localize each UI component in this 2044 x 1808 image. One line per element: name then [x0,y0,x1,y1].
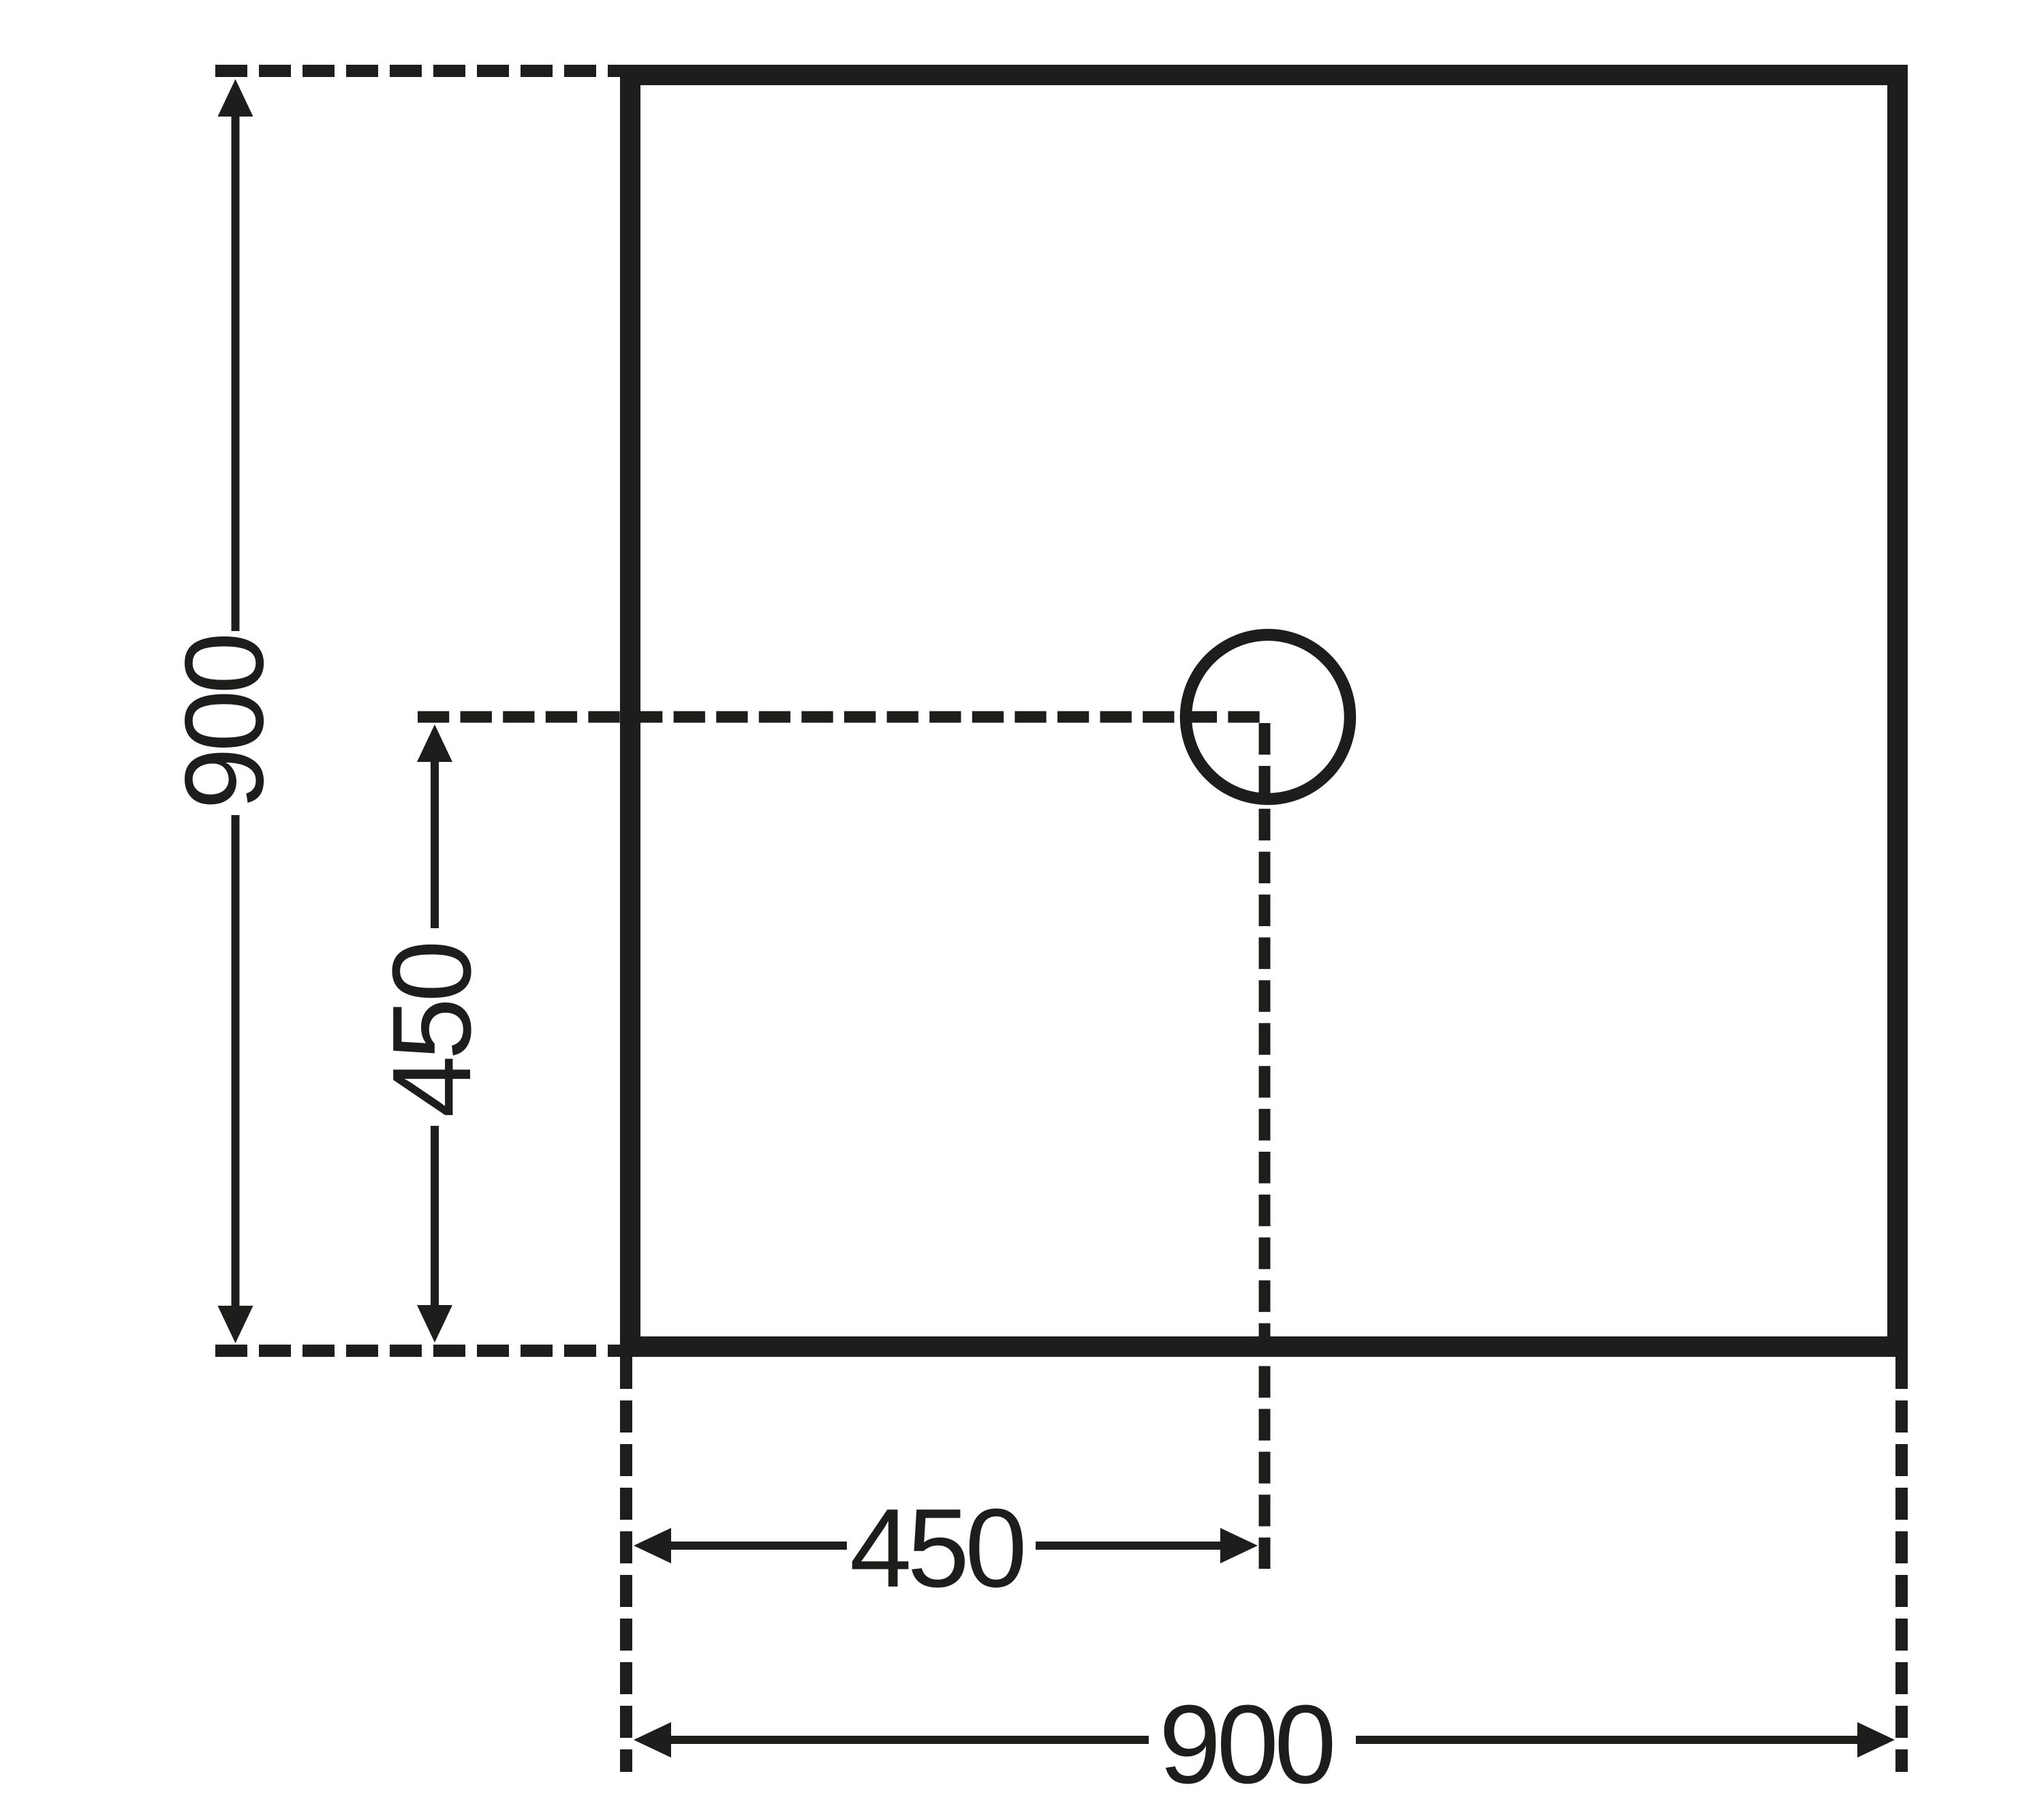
svg-text:900: 900 [1159,1682,1332,1807]
dimension 900 left: arrowhead down [218,1306,253,1343]
dimension 900 left: arrowhead up [218,79,253,117]
dimension 450 bottom: shaft left [670,1542,847,1550]
right vertical extension dashed line (below square) [1895,1357,1908,1772]
dimension 450 left: shaft upper [431,761,439,928]
dimension 450 left: shaft lower [431,1126,439,1306]
dimension 450 left: arrowhead down [417,1305,452,1343]
svg-text:900: 900 [162,637,287,810]
top extension dashed line [215,65,621,77]
left vertical extension dashed line (below square) [620,1357,632,1772]
centerline horizontal dashed (through drain) [418,711,1260,723]
dimension 450 bottom: arrowhead left [634,1528,671,1563]
dimension 450 bottom: shaft right [1036,1542,1222,1550]
svg-text:450: 450 [850,1486,1023,1610]
dimension 900 bottom: arrowhead left [634,1722,671,1758]
bottom-left extension dashed line [215,1345,621,1357]
dimension 450 bottom: arrowhead right [1220,1528,1258,1563]
dimension 900 bottom: shaft right [1356,1736,1859,1744]
dimension 900 left: shaft lower [232,815,240,1307]
shower tray outline (thick square) [630,75,1898,1347]
centerline vertical dashed (below drain) [1259,723,1271,1569]
dimension 900 bottom: arrowhead right [1857,1722,1895,1758]
dimension 900 left: shaft upper [232,116,240,631]
svg-text:450: 450 [369,945,494,1118]
dimension 900 bottom: shaft left [670,1736,1149,1744]
dimension 450 left: arrowhead up [417,724,452,762]
drain circle [1186,635,1350,799]
